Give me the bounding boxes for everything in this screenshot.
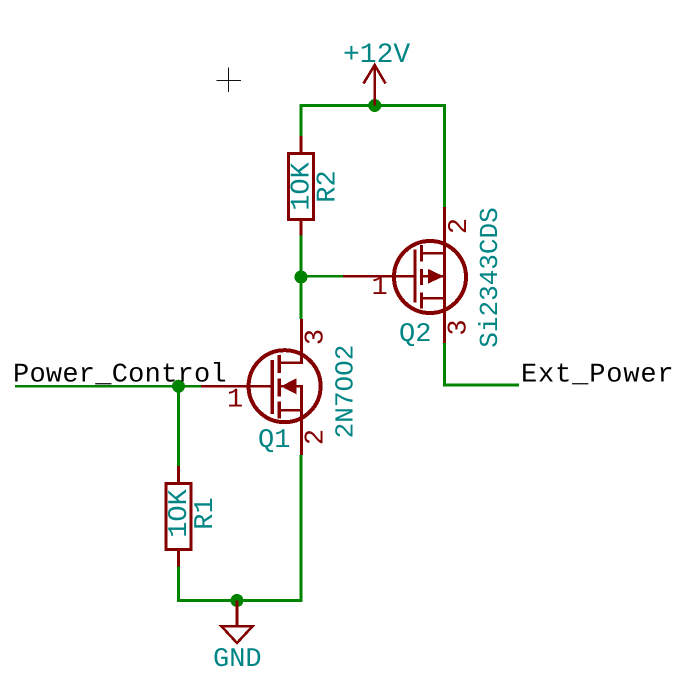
wire Power_Control to Q1 gate pin (15, 385, 201, 388)
wire from top bus down to R2 (300, 104, 303, 137)
wire node C down to R1 (177, 386, 180, 467)
wire R2 bottom to node B (300, 235, 303, 277)
wire R1 bottom to bottom bus (177, 566, 180, 602)
junction node B (295, 271, 308, 284)
svg-text:+12V: +12V (343, 40, 410, 71)
svg-text:R1: R1 (191, 497, 221, 529)
wire bottom bus to Q1 source column (179, 599, 302, 602)
wire node B down to Q1 drain pin (300, 277, 303, 319)
wire Q1 source pin down to bottom bus (300, 455, 303, 602)
svg-text:3: 3 (445, 319, 475, 335)
junction node D (231, 594, 244, 607)
svg-text:3: 3 (301, 329, 331, 345)
svg-text:Power_Control: Power_Control (13, 360, 227, 390)
svg-text:R2: R2 (314, 170, 344, 202)
wire top bus from R2 column to Q2 column (301, 104, 445, 107)
junction node A (368, 99, 381, 112)
transistor Q2 (343, 207, 466, 343)
resistor R1 (166, 466, 191, 567)
svg-text:2: 2 (301, 429, 331, 445)
ground (222, 601, 253, 644)
sheet origin cross (217, 68, 242, 93)
svg-text:2: 2 (445, 218, 475, 234)
wire Q2 drain pin down and right to Ext_Power (445, 343, 520, 385)
svg-text:1: 1 (372, 273, 388, 303)
svg-text:Ext_Power: Ext_Power (521, 360, 674, 390)
resistor R2 (289, 136, 314, 236)
junction node C (172, 380, 185, 393)
transistor Q1 (201, 319, 321, 455)
svg-text:Q2: Q2 (399, 320, 431, 350)
svg-text:1: 1 (227, 386, 243, 416)
svg-text:Q1: Q1 (258, 426, 290, 456)
svg-text:GND: GND (213, 645, 262, 675)
power symbol +12V (364, 65, 386, 106)
wire node B to Q2 gate pin (301, 275, 343, 278)
svg-text:Si2343CDS: Si2343CDS (475, 207, 505, 347)
svg-text:2N7OO2: 2N7OO2 (331, 345, 361, 439)
wire from top bus down to Q2 pin 2 (443, 104, 446, 207)
